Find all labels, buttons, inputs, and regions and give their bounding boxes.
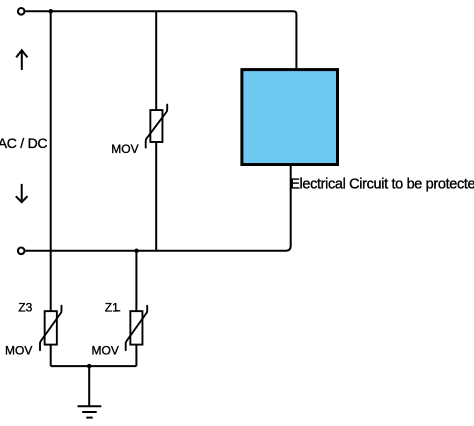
svg-text:MOV: MOV: [92, 344, 119, 358]
svg-text:AC / DC: AC / DC: [0, 135, 47, 151]
wire top horizontal from input terminal to right corner: [25, 11, 296, 68]
wire mid horizontal from lower terminal to corner below box: [25, 166, 290, 251]
svg-text:Electrical Circuit to be prote: Electrical Circuit to be protected: [290, 176, 474, 192]
wire Z1 bottom stub: [135, 344, 137, 366]
svg-text:MOV: MOV: [5, 344, 32, 358]
terminal top-left input: [18, 8, 25, 15]
node junction top: [48, 9, 53, 14]
up arrow: [16, 50, 27, 70]
protected circuit block: [242, 70, 338, 165]
wire MOV branch vertical lower: [155, 142, 157, 251]
node junction mid (Z1 tap): [134, 249, 139, 254]
svg-text:MOV: MOV: [111, 142, 138, 156]
node junction bottom (ground tap): [87, 364, 92, 369]
varistor MOV (top branch): [146, 105, 168, 148]
ground: [78, 406, 102, 417]
svg-text:Z1: Z1: [105, 300, 119, 314]
wire Z1 vertical from mid junction down: [135, 251, 137, 312]
down arrow: [16, 184, 28, 202]
terminal mid-left input: [18, 248, 25, 255]
svg-text:Z3: Z3: [18, 300, 32, 314]
varistor Z3: [40, 306, 62, 350]
wire Z3 bottom stub: [50, 344, 52, 366]
wire MOV branch vertical upper: [155, 11, 157, 111]
wire ground stub vertical: [88, 366, 90, 406]
wire bottom horizontal between Z3 and Z1: [51, 365, 137, 367]
varistor Z1: [126, 306, 148, 350]
wire left vertical from top junction down to Z3: [50, 11, 52, 312]
